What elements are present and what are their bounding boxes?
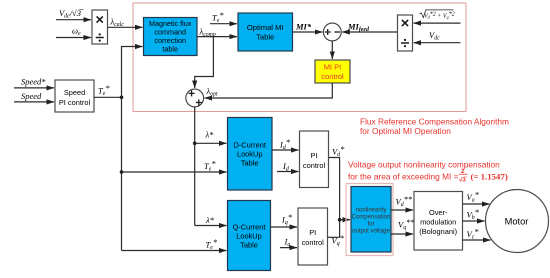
wire sqrt(Vd*2+Vq*2) input to U2 [414, 22, 461, 24]
summing node lambda (plus plus) [186, 89, 204, 107]
svg-text:2: 2 [461, 168, 465, 175]
wire Te* branch to Q-current table [122, 250, 227, 252]
MI PI control block [315, 60, 350, 83]
wire Te* vertical bus down [121, 97, 123, 250]
svg-text:Vd*2 + Vq*2: Vd*2 + Vq*2 [424, 12, 455, 20]
svg-text:modulation: modulation [420, 218, 456, 227]
svg-text:Te*: Te* [212, 10, 224, 24]
svg-text:Te*: Te* [206, 237, 218, 251]
svg-text:Q-Current: Q-Current [233, 223, 266, 232]
wire Id* D-table to PI control [272, 149, 299, 151]
red algorithm boundary rect [133, 3, 466, 112]
svg-text:Speed: Speed [64, 88, 85, 97]
svg-text:Table: Table [256, 33, 274, 42]
junction Te* node [120, 96, 124, 100]
svg-text:output voltage: output voltage [352, 229, 390, 235]
svg-text:(Bolognani): (Bolognani) [419, 227, 457, 236]
wire bus tap into nonlinearity compensation [340, 219, 350, 221]
wire lambda_comp to optimal MI table [197, 36, 237, 38]
svg-text:PI: PI [309, 228, 316, 237]
motor circle [486, 190, 549, 253]
junction Te* to D-table [120, 170, 124, 174]
speed PI control block [55, 80, 94, 112]
wire Speed* input [14, 87, 54, 89]
Q-current lookup table block [228, 201, 271, 271]
svg-text:λcomp: λcomp [199, 27, 216, 39]
summing node MI (plus minus) [323, 23, 341, 41]
optimal MI table block [238, 13, 293, 51]
wire Iq feedback stub to PI control [280, 247, 297, 249]
svg-text:Vb*: Vb* [467, 207, 480, 221]
wire MI_feed from U2 to summing node [342, 31, 397, 33]
junction lambda* to D-table [193, 142, 197, 146]
svg-text:for Optimal MI Operation: for Optimal MI Operation [360, 126, 451, 136]
svg-text:ωe: ωe [72, 26, 81, 38]
svg-text:Table: Table [241, 159, 259, 168]
svg-text:Optimal MI: Optimal MI [247, 23, 284, 32]
wire lambda_comp branch down to summing node [195, 37, 214, 88]
wire Vdc/sqrt3 input to multiplier-divider U1 [56, 19, 91, 21]
wire Vd** to over-modulation [391, 209, 413, 211]
junction Vd/Vq bus tap [338, 218, 342, 222]
svg-text:Vc*: Vc* [467, 227, 480, 241]
multiplier-divider block U2 [398, 15, 413, 51]
svg-text:PI control: PI control [59, 98, 91, 107]
svg-text:λ*: λ* [205, 130, 215, 140]
svg-text:control: control [302, 238, 325, 247]
svg-text:Vq**: Vq** [398, 217, 415, 231]
wire Vdc input to U2 [414, 42, 461, 44]
wire Vb* to motor [463, 220, 485, 222]
q-axis PI control block [298, 208, 328, 265]
red note: voltage output nonlinearity compensation [348, 160, 508, 184]
svg-text:Table: Table [240, 241, 258, 250]
wire lambda* branch to Q-current table [195, 225, 227, 227]
wire Iq* Q-table to PI control [271, 226, 298, 228]
wire MI summing node to MI PI control [331, 41, 333, 59]
wire omega_e input to U1 [56, 37, 91, 39]
svg-text:Vd*: Vd* [332, 144, 345, 158]
svg-text:Flux Reference Compensation Al: Flux Reference Compensation Algorithm [360, 117, 509, 127]
svg-text:λopt: λopt [206, 86, 218, 98]
svg-text:Speed*: Speed* [21, 77, 46, 87]
svg-text:table: table [162, 45, 178, 54]
multiplier-divider block U1 [92, 10, 108, 44]
wire Va* to motor [463, 203, 490, 205]
D-current lookup table block [228, 118, 273, 191]
svg-text:D-Current: D-Current [233, 141, 265, 150]
wire Vq* from q PI control to the bus [328, 236, 340, 238]
svg-text:Speed: Speed [21, 91, 42, 101]
wire MI PI control output to lambda summing node [205, 83, 333, 98]
svg-text:MI*: MI* [295, 22, 312, 32]
wire lambda* vertical bus from summing node [194, 107, 196, 226]
svg-text:√3̅: √3̅ [459, 176, 468, 183]
pink highlight rect around nonlinearity block [346, 184, 393, 256]
d-axis PI control block [300, 131, 329, 188]
svg-text:Vq*: Vq* [332, 233, 345, 247]
svg-text:Id*: Id* [279, 137, 291, 151]
svg-text:Vd**: Vd** [396, 194, 413, 208]
svg-text:LookUp: LookUp [237, 150, 262, 159]
wire Vd* from d PI control down the bus [329, 158, 340, 238]
wire Te* branch to D-current table [122, 171, 227, 173]
svg-text:PI: PI [311, 151, 318, 160]
svg-text:Vdc: Vdc [429, 30, 440, 42]
svg-text:for the area of exceeding MI =: for the area of exceeding MI = [348, 172, 459, 182]
svg-text:MI PI: MI PI [324, 63, 341, 72]
wire lambda* branch to D-current table [195, 142, 227, 144]
magnetic flux command correction table block [144, 18, 198, 56]
wire Vc* to motor [463, 239, 491, 241]
wire lambda_calc U1 to magnetic flux table [108, 26, 143, 28]
wire Te* up branch into magnetic flux table [122, 47, 143, 98]
wire MI* to summing node [293, 31, 323, 33]
svg-text:Voltage output nonlinearity co: Voltage output nonlinearity compensation [348, 160, 500, 170]
svg-text:Va*: Va* [467, 190, 480, 204]
svg-text:Id: Id [282, 161, 289, 173]
wire Vq** to over-modulation [391, 233, 413, 235]
svg-text:Compensation: Compensation [352, 215, 391, 221]
svg-text:LookUp: LookUp [236, 232, 261, 241]
svg-text:control: control [303, 161, 326, 170]
wire Id feedback stub to PI control [277, 171, 299, 173]
svg-text:Motor: Motor [505, 217, 529, 227]
over-modulation block [414, 192, 463, 251]
svg-text:Iq: Iq [284, 237, 291, 249]
svg-text:Te*: Te* [204, 159, 216, 173]
svg-text:Vdc/√3̅: Vdc/√3̅ [59, 8, 84, 20]
svg-text:MIfeed: MIfeed [347, 22, 369, 34]
svg-text:λcalc: λcalc [110, 17, 125, 29]
svg-text:Iq*: Iq* [281, 212, 293, 226]
svg-text:λ*: λ* [205, 215, 215, 225]
svg-text:Te*: Te* [98, 83, 110, 97]
wire Speed input [14, 101, 54, 103]
wire Te* from speed PI to junction [94, 96, 122, 98]
svg-text:for: for [367, 222, 374, 228]
svg-text:(= 1.1547): (= 1.1547) [471, 172, 508, 182]
svg-text:Over-: Over- [429, 208, 448, 217]
svg-text:nonlinearity: nonlinearity [356, 208, 387, 214]
wire Te* stub to optimal MI table [210, 23, 237, 25]
nonlinearity compensation block [351, 187, 391, 253]
svg-text:control: control [321, 72, 344, 81]
red note: flux reference compensation algorithm [360, 117, 509, 137]
